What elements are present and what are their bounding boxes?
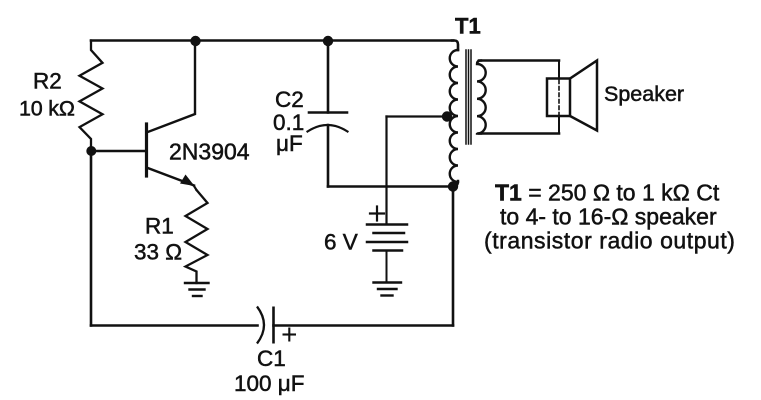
node C2-top rail [323,36,333,46]
capacitor C2 bottom lead [327,125,330,187]
svg-text:T1: T1 [455,14,481,39]
wire bottom rail left of C1 [91,324,258,327]
svg-text:T1 = 250 Ω to 1 kΩ Ct: T1 = 250 Ω to 1 kΩ Ct [495,180,720,206]
svg-text:C2: C2 [275,87,304,112]
wire top rail [91,39,453,42]
svg-text:10 kΩ: 10 kΩ [19,97,75,121]
transformer T1 center tap wire [387,115,448,117]
svg-text:100 μF: 100 μF [234,371,305,396]
wire base [91,150,146,153]
transistor Q1 base bar [145,124,148,176]
node R2-base junction [86,146,96,156]
resistor R1 [186,190,208,283]
battery B1 plates [367,225,407,251]
svg-text:R1: R1 [145,214,174,239]
resistor R2 [80,41,103,152]
transformer T1 secondary winding [477,61,486,134]
node collector-top rail [190,36,200,46]
transistor Q1 emitter [147,168,195,186]
capacitor C2 curved plate [308,125,348,132]
wire emitter to R1 [194,186,197,190]
node transformer bottom [448,181,458,191]
transistor Q1 collector [147,41,196,133]
svg-text:6 V: 6 V [324,230,358,255]
transformer T1 primary bottom corner [454,181,459,187]
wire secondary top [479,59,559,62]
wire transformer top corner [452,41,458,51]
node transformer center tap [442,111,452,121]
svg-text:μF: μF [276,131,303,156]
capacitor C2 top lead [327,41,330,113]
wire mid rail [328,185,453,188]
ground for R1 [185,283,209,296]
ground for battery [374,283,402,296]
capacitor C1 plus sign [283,328,297,342]
battery B1 positive lead [385,117,387,225]
capacitor C1 straight plate [272,307,275,344]
wire speaker vertical top [558,61,560,80]
wire dashed inside speaker rectangle [558,80,560,115]
wire speaker vertical bottom [558,116,560,134]
battery B1 plus sign [370,207,384,221]
svg-text:C1: C1 [257,346,286,371]
wire right rail [452,187,455,326]
svg-text:33 Ω: 33 Ω [134,240,182,265]
wire bottom rail right of C1 [274,324,454,327]
svg-text:Speaker: Speaker [604,82,684,106]
svg-text:2N3904: 2N3904 [169,139,250,165]
transformer T1 core [466,50,471,144]
wire left rail [90,151,93,326]
speaker driver rectangle [547,79,570,117]
wire secondary bottom [479,132,559,135]
svg-text:R2: R2 [33,69,62,94]
transformer T1 primary winding [450,50,458,182]
capacitor C2 top plate [309,111,347,114]
transistor Q1 emitter arrowhead [180,175,195,187]
svg-text:(transistor radio output): (transistor radio output) [484,228,736,254]
capacitor C1 curved plate [257,307,264,344]
svg-text:to 4- to 16-Ω speaker: to 4- to 16-Ω speaker [500,204,717,230]
speaker cone [570,61,597,131]
battery B1 negative lead [386,251,388,283]
